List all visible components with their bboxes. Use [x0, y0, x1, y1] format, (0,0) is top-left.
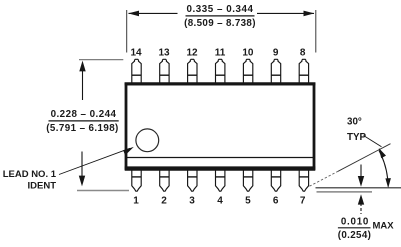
30 deg construction line: [310, 144, 391, 187]
height dimension down arrow: [79, 152, 85, 187]
svg-text:0.335 – 0.344: 0.335 – 0.344: [186, 4, 253, 15]
lead no. 1 ident circle: [136, 129, 159, 152]
svg-text:IDENT: IDENT: [28, 181, 57, 192]
TYP leader line: [364, 136, 382, 147]
svg-text:2: 2: [161, 196, 167, 207]
body inner edge line: [125, 157, 315, 159]
pin 10: [243, 59, 252, 83]
width dimension extension line left: [126, 10, 128, 53]
svg-text:TYP: TYP: [347, 132, 367, 143]
pin 9: [271, 59, 280, 83]
svg-text:30°: 30°: [347, 117, 362, 128]
pin 2: [160, 170, 169, 192]
svg-text:0.228 – 0.244: 0.228 – 0.244: [51, 109, 117, 120]
svg-text:5: 5: [245, 196, 251, 207]
svg-text:7: 7: [300, 196, 306, 207]
svg-text:10: 10: [242, 48, 254, 59]
pin 13: [160, 59, 169, 83]
pin 11: [216, 59, 225, 83]
height dimension up arrow: [79, 61, 85, 100]
svg-text:14: 14: [130, 48, 142, 59]
width dimension extension line right: [315, 10, 317, 53]
pin 5: [243, 170, 252, 192]
height dimension fraction bar: [49, 120, 119, 122]
pin 1: [132, 170, 141, 192]
width dimension line left segment with arrowhead: [128, 11, 177, 17]
svg-text:8: 8: [300, 48, 306, 59]
30 deg arc with arrowheads: [379, 148, 391, 188]
pin 4: [216, 170, 225, 192]
svg-text:0.010: 0.010: [341, 217, 369, 228]
pin 8: [299, 59, 308, 83]
width dimension line right segment with arrowhead: [257, 11, 314, 17]
svg-text:(0.254): (0.254): [338, 230, 372, 241]
svg-text:11: 11: [215, 48, 226, 59]
seating plane line upper: [316, 187, 401, 189]
height dimension extension line top: [79, 59, 123, 61]
lead no.1 ident leader arrow: [59, 147, 134, 175]
pin 12: [188, 59, 197, 83]
standoff dimension up arrow: [358, 194, 364, 214]
standoff dimension fraction bar: [338, 227, 371, 229]
seating plane line lower: [317, 191, 373, 193]
package body outline: [126, 84, 314, 169]
svg-text:LEAD NO. 1: LEAD NO. 1: [3, 169, 57, 180]
svg-text:(8.509 – 8.738): (8.509 – 8.738): [184, 18, 256, 29]
pin 3: [188, 170, 197, 192]
svg-text:3: 3: [189, 196, 195, 207]
pin 7: [299, 170, 308, 192]
svg-text:1: 1: [133, 196, 139, 207]
height dimension extension line bottom: [77, 190, 129, 192]
svg-text:(5.791 – 6.198): (5.791 – 6.198): [46, 123, 118, 134]
pin 6: [271, 170, 280, 192]
body top edge overdraw: [125, 82, 316, 85]
standoff dimension down arrow: [358, 165, 364, 187]
svg-text:9: 9: [273, 48, 279, 59]
body bottom edge thick overdraw: [125, 166, 316, 170]
svg-text:MAX: MAX: [373, 221, 395, 232]
svg-text:6: 6: [273, 196, 279, 207]
pin 14: [132, 59, 141, 83]
width dimension fraction bar: [186, 15, 255, 17]
svg-text:4: 4: [217, 196, 223, 207]
svg-text:12: 12: [186, 48, 198, 59]
svg-text:13: 13: [158, 48, 170, 59]
